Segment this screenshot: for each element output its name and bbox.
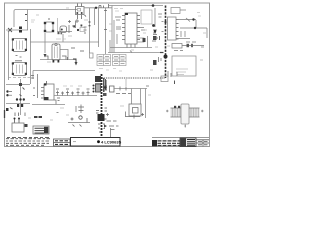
svg-text:4 LC9063S: 4 LC9063S	[101, 139, 122, 144]
